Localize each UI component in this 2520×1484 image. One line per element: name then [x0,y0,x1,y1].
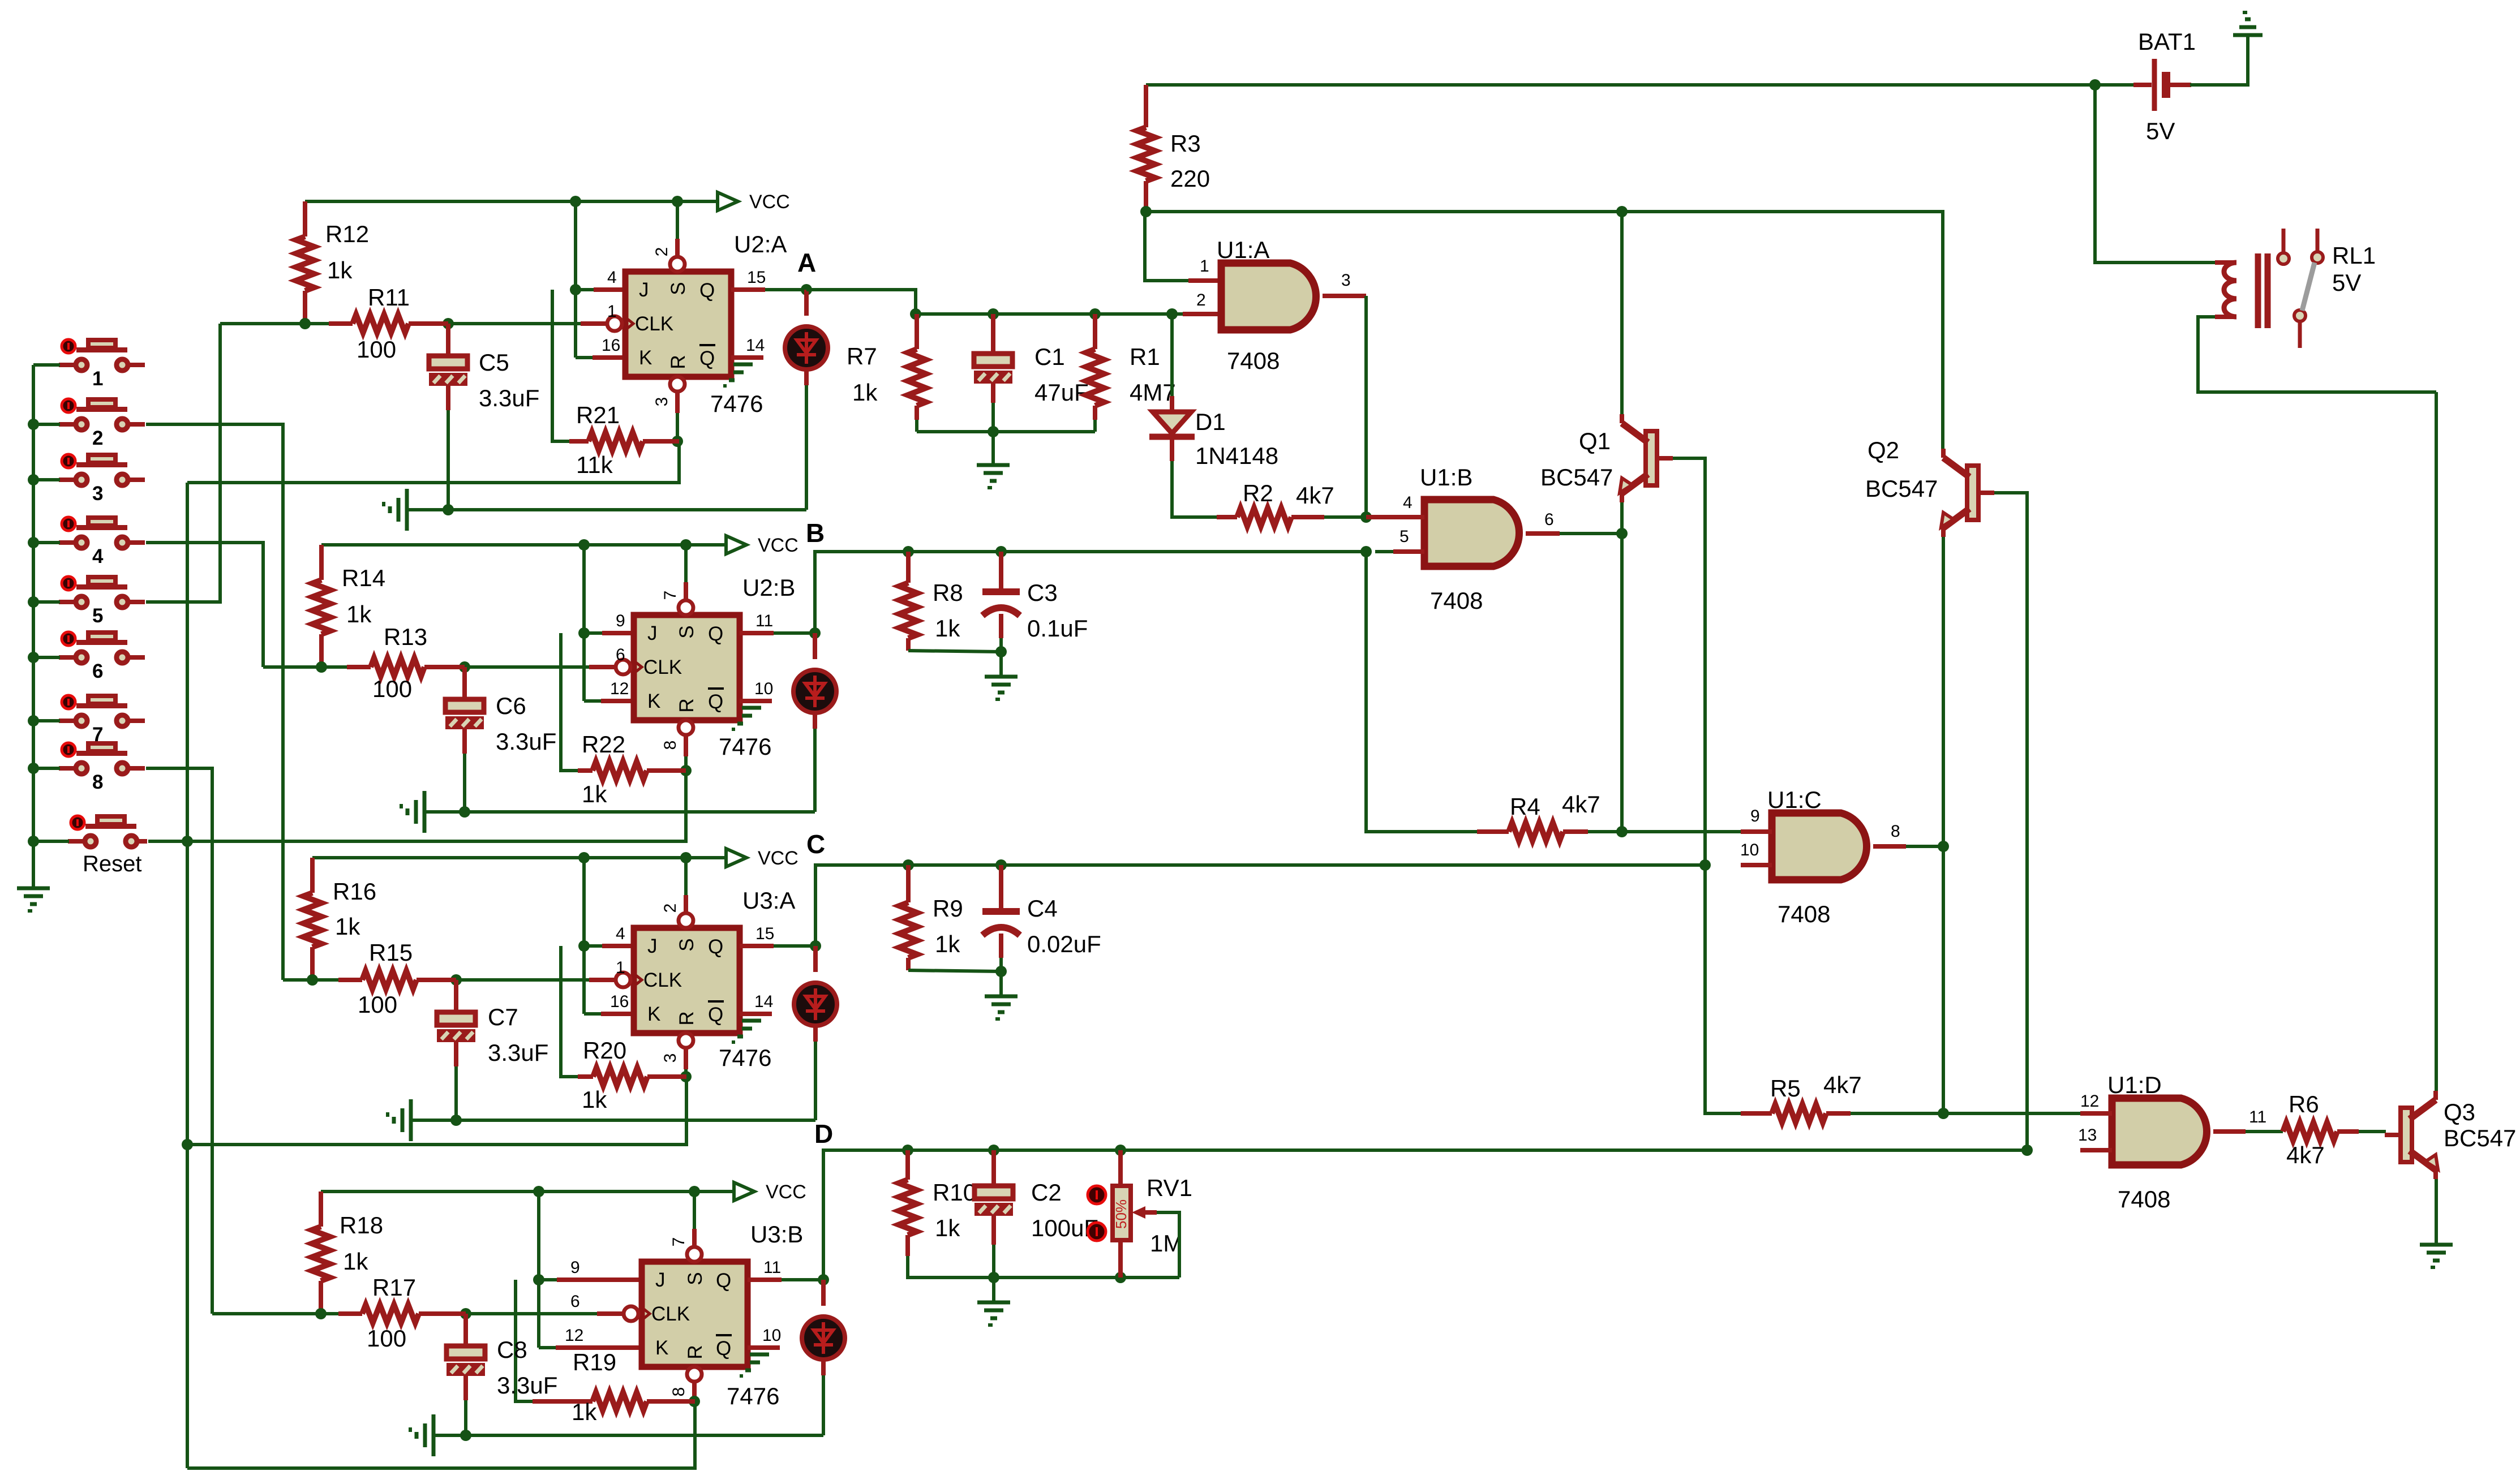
svg-text:7408: 7408 [2118,1186,2170,1212]
svg-text:C2: C2 [1031,1179,1062,1206]
svg-text:4k7: 4k7 [1296,482,1334,509]
push button 8 [59,743,145,774]
svg-text:14: 14 [754,992,773,1011]
ground (B filter) [985,677,1018,699]
svg-text:R1: R1 [1130,343,1160,370]
svg-text:12: 12 [610,679,629,698]
resistor R9 [899,865,917,970]
svg-text:14: 14 [746,336,765,355]
svg-text:R20: R20 [583,1037,626,1064]
wire pin S [684,895,688,913]
svg-text:1N4148: 1N4148 [1195,442,1278,469]
label R11 [357,284,410,363]
svg-text:BC547: BC547 [1865,475,1938,502]
wire pin 3 stub U1:A [1323,294,1366,298]
svg-text:100: 100 [357,336,396,363]
junction [450,974,462,986]
button label 1 [92,368,103,390]
svg-text:A: A [797,248,816,277]
wire [424,810,815,814]
svg-text:4: 4 [1403,493,1413,512]
svg-text:7476: 7476 [727,1383,779,1409]
wire [999,865,1003,911]
wire [1588,830,1741,833]
svg-text:U1:B: U1:B [1420,464,1472,491]
svg-text:3: 3 [92,483,103,505]
resistor R18 [312,1191,330,1314]
IC U2:A (7476 JK flip-flop) [607,257,731,392]
svg-text:Q: Q [708,1004,723,1026]
svg-text:R: R [676,698,698,712]
svg-text:1k: 1k [572,1399,597,1425]
label R7 [847,343,878,406]
svg-text:C8: C8 [497,1336,527,1363]
resistor R10 [899,1150,917,1256]
wire [584,699,601,703]
capacitor C7 [437,1012,475,1042]
wire [561,946,578,1077]
wire [2435,1179,2438,1245]
svg-text:9: 9 [616,612,625,630]
wire [1093,420,1097,432]
label R17 [367,1274,416,1352]
wire [915,420,918,432]
pin numbers [610,904,774,1063]
wire [584,1012,601,1016]
svg-text:10: 10 [762,1326,781,1345]
svg-text:13: 13 [2078,1126,2097,1145]
ground (C filter) [985,996,1018,1019]
junction [988,426,999,437]
svg-text:3: 3 [661,1053,680,1063]
wire [991,1216,996,1245]
push button 5 [59,577,145,608]
svg-text:1: 1 [92,368,103,390]
wire [991,403,995,432]
wire [1705,865,1741,1113]
wire [1157,1212,1179,1277]
svg-text:1: 1 [1200,257,1209,276]
svg-text:11: 11 [755,612,773,630]
ground (stage D) [410,1414,433,1456]
wire pin Q stub [731,287,765,292]
junction [578,539,590,550]
svg-text:100: 100 [358,991,397,1018]
label C1 [1034,343,1089,406]
svg-text:R11: R11 [368,284,410,311]
wire [516,1280,533,1401]
svg-text:J: J [647,935,658,957]
svg-text:0.02uF: 0.02uF [1027,931,1101,957]
capacitor C3 [982,592,1020,616]
wire [187,1401,695,1468]
svg-text:C3: C3 [1027,579,1058,606]
ground (osc) [977,465,1010,488]
junction [533,1274,544,1285]
junction [28,836,39,847]
wire [1942,537,1945,846]
wire pin 4 stub U1:B [1366,515,1424,519]
svg-text:7: 7 [669,1237,688,1247]
wire [312,856,726,859]
svg-text:CLK: CLK [643,656,682,678]
svg-text:R6: R6 [2289,1091,2319,1117]
label 7476 [719,733,771,760]
wire [1364,296,1368,517]
label D1 [1195,408,1278,469]
wire [33,423,60,426]
svg-text:4: 4 [607,268,617,287]
wire pin S [675,239,680,256]
svg-text:VCC: VCC [766,1181,806,1203]
svg-text:CLK: CLK [651,1303,690,1325]
resistor R22 [578,762,686,780]
svg-text:3: 3 [652,397,671,407]
IC U3:B (7476 JK flip-flop) [624,1247,748,1382]
wire [693,1401,696,1403]
wire pin Q stub [740,631,774,635]
wire [999,934,1003,958]
wire [1851,1112,2080,1115]
svg-text:U3:B: U3:B [750,1221,803,1248]
label R4 [1510,791,1600,820]
wire [999,552,1003,592]
svg-text:12: 12 [2080,1092,2099,1111]
svg-text:R17: R17 [372,1274,416,1301]
wire pin J stub [557,1277,642,1282]
svg-text:7408: 7408 [1227,347,1280,374]
button label 3 [92,483,103,505]
wire [999,614,1003,638]
junction [460,1430,471,1441]
wire [33,600,60,604]
junction [1616,206,1628,217]
junction [902,1145,913,1156]
svg-text:K: K [647,690,660,712]
push button 4 [59,517,145,548]
LED D-D [802,1317,845,1360]
wire [454,1042,458,1066]
wire [446,324,450,356]
wire [813,729,817,812]
label R6 [2286,1091,2325,1168]
junction [570,284,581,295]
junction [988,308,999,320]
wire [33,541,60,544]
svg-text:4M7: 4M7 [1130,379,1176,406]
junction [1089,308,1101,320]
svg-text:7408: 7408 [1430,587,1483,614]
wire [991,314,995,354]
junction [1166,308,1178,320]
wire pin stub CLK U3:B [597,1311,624,1316]
wire [576,288,594,291]
svg-text:D: D [814,1119,833,1149]
wire [146,543,263,667]
wire [908,1256,1179,1277]
wire [821,1280,826,1306]
svg-text:9: 9 [570,1258,580,1277]
AND gate U1:D [2112,1098,2207,1165]
svg-text:1k: 1k [852,379,878,406]
wire [1620,534,1624,832]
wire [1366,552,1477,832]
capacitor C8 [447,1346,485,1376]
wire [187,441,679,483]
svg-text:Q1: Q1 [1579,428,1611,454]
svg-text:1k: 1k [935,931,960,957]
svg-text:10: 10 [1740,841,1759,859]
wire [433,1434,823,1437]
pin numbers U1:C [1740,807,1900,859]
label R12 [325,221,369,283]
wire pin R [684,735,688,756]
svg-text:S: S [684,1272,706,1285]
svg-text:2: 2 [92,427,103,449]
junction [460,1308,471,1319]
pin numbers U1:D [2078,1092,2266,1145]
wire [999,638,1003,652]
ground (stage B) [401,791,424,833]
svg-text:S: S [676,625,698,638]
wire [1942,846,1945,1113]
svg-text:1k: 1k [335,913,360,940]
svg-text:C5: C5 [479,349,509,376]
junction [299,318,311,329]
junction [28,419,39,430]
label C3 [1027,579,1088,642]
wire [446,386,450,410]
VCC symbol [726,535,798,556]
svg-text:R7: R7 [847,343,877,369]
ground (battery) [2233,12,2263,35]
svg-text:R: R [676,1011,698,1025]
IC U2:B (7476 JK flip-flop) [616,600,740,735]
wire [220,322,329,325]
wire [1941,212,1944,449]
potentiometer RV1 [1088,1186,1157,1277]
VCC symbol [726,848,798,869]
wire [992,1277,995,1302]
resistor R19 [533,1392,695,1410]
wire [582,545,586,701]
junction [1115,1145,1126,1156]
wire [991,432,995,465]
svg-text:J: J [639,279,649,301]
pin numbers [610,591,773,750]
button label 2 [92,427,103,449]
svg-text:3.3uF: 3.3uF [488,1039,548,1066]
node D [814,1119,833,1149]
junction [316,661,327,673]
wire [32,365,35,888]
wire [1620,502,1624,534]
wire pin S [684,582,688,600]
svg-text:16: 16 [602,336,620,355]
wire [992,1245,995,1277]
junction [315,1308,327,1319]
wire [823,1150,2027,1280]
svg-text:C4: C4 [1027,895,1058,922]
wire [186,483,189,1468]
svg-text:7476: 7476 [719,733,771,760]
svg-text:U2:B: U2:B [742,574,795,601]
ground (stage C) [388,1099,411,1141]
junction [680,765,692,776]
junction [570,196,581,207]
wire [33,719,60,722]
junction [443,504,454,515]
label R18 [340,1212,383,1275]
wire [146,424,283,980]
svg-text:R: R [684,1345,706,1359]
label 7476 [710,390,763,417]
wire [805,385,808,510]
svg-text:Q2: Q2 [1868,437,1899,463]
label 7408 [1430,587,1483,614]
wire [33,363,60,367]
junction [1360,511,1372,523]
wire [813,712,817,729]
svg-text:11: 11 [2249,1108,2266,1126]
wire pin 1 stub U1:A [1188,278,1221,283]
pin numbers [602,247,766,407]
wire [1560,532,1622,535]
svg-text:Reset: Reset [83,851,142,876]
label U3:A [742,887,795,914]
wire [821,1359,826,1375]
wire pin K stub [601,1012,634,1016]
wire [574,201,577,358]
button label 6 [92,660,103,682]
svg-text:U1:A: U1:A [1217,236,1269,263]
wire [148,771,686,841]
label R1 [1130,343,1176,406]
label C4 [1027,895,1101,957]
wire [999,971,1003,996]
svg-text:Q3: Q3 [2444,1099,2475,1125]
junction [182,836,193,847]
wire [462,667,467,699]
svg-text:1: 1 [616,958,625,977]
svg-text:15: 15 [747,268,766,287]
wire [806,290,916,314]
pin numbers U1:A [1196,257,1351,309]
svg-text:D1: D1 [1195,408,1226,435]
junction [988,1145,999,1156]
svg-text:Q: Q [699,347,715,369]
resistor R20 [578,1068,686,1086]
svg-text:K: K [639,347,652,369]
label R3 [1170,130,1210,192]
junction [809,627,821,639]
pin numbers [565,1237,781,1397]
push button 2 [59,399,145,430]
wire [321,543,726,547]
svg-text:2: 2 [652,247,671,257]
label Q2 [1865,437,1938,502]
wire [813,1025,818,1042]
junction [450,1115,462,1126]
svg-text:9: 9 [1750,807,1760,825]
wire [582,858,586,1014]
junction [910,308,921,320]
svg-text:VCC: VCC [749,191,790,213]
label 7408 [1227,347,1280,374]
LED D-B [793,670,836,713]
wire [908,651,1001,652]
wire [463,754,466,812]
wire [146,768,212,1314]
node C [806,829,825,859]
label R14 [342,565,385,627]
svg-text:R: R [667,355,689,369]
wire [454,980,458,1012]
svg-text:RV1: RV1 [1147,1175,1192,1201]
svg-text:15: 15 [755,924,774,943]
junction [672,436,683,447]
wire pin Qbar stub [740,699,772,703]
junction [578,627,590,639]
transistor Q2 (BC547) [1941,449,1994,537]
svg-text:4: 4 [616,924,625,943]
svg-text:Q: Q [716,1270,731,1292]
svg-text:1k: 1k [935,615,960,642]
button label Reset [83,851,142,876]
wire pin 2 stub U1:A [1183,312,1221,316]
svg-text:100: 100 [367,1325,406,1352]
svg-text:C1: C1 [1034,343,1065,370]
label R19 [572,1349,616,1425]
wire [822,1375,825,1435]
wire [263,665,347,669]
resistor R1 [1086,314,1104,420]
svg-text:R13: R13 [384,623,427,650]
wire [146,324,220,602]
ground (left bus) [17,888,50,911]
wire [283,978,338,982]
svg-text:50%: 50% [1113,1199,1130,1229]
wire [447,410,450,510]
junction [182,1139,193,1150]
label R2 [1243,480,1334,509]
button label 5 [92,605,103,627]
junction [1616,528,1628,539]
svg-text:3.3uF: 3.3uF [496,728,556,755]
svg-text:R4: R4 [1510,793,1540,820]
wire pin K stub [556,1345,642,1350]
wire [2198,317,2436,392]
junction [1140,206,1152,217]
wire [539,1278,557,1281]
junction [995,966,1007,977]
svg-text:12: 12 [565,1326,583,1345]
wire pin stub CLK U3:A [589,978,616,982]
wire pin Qbar stub [748,1345,780,1350]
ground (Qbar) [732,1021,761,1042]
label C2 [1031,1179,1098,1241]
wire [782,1278,823,1281]
wire [1146,212,1943,454]
svg-text:11k: 11k [576,451,613,478]
wire [774,631,815,635]
label C5 [479,349,539,411]
svg-text:CLK: CLK [643,969,682,991]
svg-text:10: 10 [754,679,773,698]
wire pin Qbar stub [740,1012,772,1016]
wire pin 6 stub U1:B [1526,531,1560,536]
wire [212,1312,338,1315]
